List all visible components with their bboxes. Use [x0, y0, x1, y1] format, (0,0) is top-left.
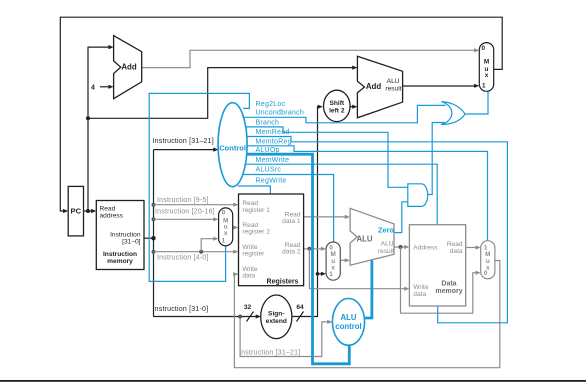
svg-text:M: M [484, 59, 489, 66]
wire: Uncondbranch signal to OR gate top input [242, 105, 446, 122]
svg-text:Sign-: Sign- [268, 311, 284, 318]
gate: OR gate [441, 102, 465, 125]
wire: MemWrite signal to data memory top [241, 164, 437, 224]
svg-text:ALUSrc: ALUSrc [256, 166, 282, 173]
wire: ALUSrc signal to ALUSrc mux select [240, 175, 334, 242]
svg-text:PC: PC [71, 207, 82, 216]
wire: Instruction [9-5] to Read register 1 [154, 204, 235, 206]
wire: instruction bus vertical [153, 150, 155, 317]
wire: Instruction [31-0] to Sign-extend [154, 316, 257, 318]
svg-text:[31–0]: [31–0] [122, 239, 141, 246]
wire: OR gate output to PCSrc mux select [465, 92, 488, 114]
svg-text:Read: Read [447, 241, 463, 248]
gate: AND gate [408, 184, 428, 207]
ellipse: Control [218, 103, 247, 187]
wire: Instruction [20-16] to Reg2Loc mux input 0 [154, 218, 215, 220]
adder: branch Add [357, 56, 402, 118]
svg-text:Instruction [31–21]: Instruction [31–21] [153, 138, 214, 145]
register PC [68, 186, 83, 236]
wire: MemtoReg signal to MemtoReg mux select [241, 146, 488, 240]
svg-text:Instruction [31–21]: Instruction [31–21] [239, 349, 300, 356]
svg-text:Instruction: Instruction [110, 231, 141, 238]
wire: Instruction [31-21] to Control [154, 149, 215, 151]
svg-text:Reg2Loc: Reg2Loc [256, 101, 286, 108]
wire: data memory Read data to MemtoReg mux input 1 [466, 247, 477, 249]
svg-text:64: 64 [296, 304, 304, 311]
svg-text:Uncondbranch: Uncondbranch [256, 110, 305, 117]
svg-text:data 1: data 1 [282, 218, 301, 225]
svg-text:memory: memory [107, 258, 133, 265]
svg-text:extend: extend [266, 318, 287, 325]
svg-text:ALU: ALU [381, 240, 394, 247]
rule: bottom border line [0, 380, 586, 382]
adder: PC+4 Add [114, 36, 142, 99]
svg-text:RegWrite: RegWrite [256, 177, 287, 184]
wire: Read data 2 to ALUSrc mux input 0 [304, 248, 322, 250]
ellipse: Shift left 2 [324, 90, 351, 121]
node: ALU result branch junction [399, 245, 403, 249]
wire: shift-left-2 output to branch adder [350, 106, 353, 108]
svg-text:Instruction [20-16]: Instruction [20-16] [155, 209, 215, 216]
svg-text:register 2: register 2 [242, 229, 270, 236]
svg-text:data: data [450, 248, 463, 255]
memory: Data memory [409, 225, 465, 306]
svg-text:Add: Add [121, 62, 137, 71]
svg-text:data: data [242, 273, 255, 280]
wire: PC value up to PC+4 adder input [88, 47, 109, 211]
svg-text:Instruction: Instruction [103, 251, 137, 258]
wire: PC output to instruction memory Read address [84, 210, 93, 212]
wire: instruction memory output stub [144, 237, 154, 239]
svg-text:Add: Add [366, 82, 382, 91]
svg-text:Read: Read [100, 205, 116, 212]
ellipse: Sign-extend [261, 295, 292, 339]
svg-text:Branch: Branch [256, 119, 280, 126]
wire: Zero flag to AND gate bottom input [394, 202, 408, 233]
wire: ALU control output to ALU (4-bit) [365, 260, 372, 318]
svg-text:MemtoReg: MemtoReg [256, 138, 292, 145]
svg-text:0: 0 [484, 270, 488, 277]
svg-text:Instruction [31-0]: Instruction [31-0] [153, 306, 209, 313]
svg-text:Instruction [4-0]: Instruction [4-0] [157, 254, 209, 261]
wire: Reg2Loc signal routed left and under to Reg2Loc mux select [149, 93, 249, 281]
svg-text:control: control [335, 322, 361, 331]
wire: Instruction [4-0] to Write register [154, 251, 235, 253]
svg-text:0: 0 [482, 45, 486, 52]
node: PC output junction [86, 209, 90, 213]
svg-text:ALU: ALU [340, 313, 356, 322]
node: PC branch junction [86, 116, 90, 120]
svg-text:ALUOp: ALUOp [256, 147, 280, 154]
wire: ALU result to MemtoReg mux input 0 [401, 247, 477, 313]
memory: Instruction memory [96, 201, 144, 270]
ellipse: ALU control [332, 299, 364, 346]
wire: RegWrite signal to Registers [238, 186, 270, 194]
svg-text:MemRead: MemRead [256, 129, 290, 136]
mux: ALUSrc mux [326, 242, 340, 280]
wire: PC+4 adder output to PCSrc mux input 0 [142, 50, 475, 67]
svg-text:0: 0 [222, 210, 226, 217]
wire: PC value to branch adder top input [88, 68, 353, 119]
node: sign-extend riser to ALUSrc mux junction [316, 272, 320, 276]
wire: Read data 2 to data memory Write data [309, 249, 405, 289]
wire: MemtoReg mux output back to Registers Write data [234, 261, 500, 368]
svg-text:Data: Data [441, 281, 456, 288]
svg-text:4: 4 [91, 84, 95, 91]
svg-text:ALU: ALU [387, 78, 400, 85]
mux: MemtoReg mux [481, 241, 495, 279]
node: instruction bus tap [20-16] [152, 217, 156, 221]
node: Instruction [4-0] branch junction [199, 250, 203, 254]
svg-text:Address: Address [413, 244, 438, 251]
svg-text:Shift: Shift [329, 100, 344, 107]
svg-text:data: data [413, 291, 426, 298]
wire: PCSrc mux output loop to PC input [60, 17, 502, 211]
wire: Instruction [4-0] up to Reg2Loc mux input 1 [201, 239, 214, 252]
svg-text:left 2: left 2 [329, 108, 345, 115]
mux: Reg2Loc mux [219, 208, 233, 246]
wire: AND gate output to OR gate bottom input [428, 123, 445, 195]
wire: ALUOp signal to ALU control (2-bit) [242, 154, 349, 364]
node: Read data 2 branch junction [307, 247, 311, 251]
svg-text:32: 32 [244, 304, 252, 311]
svg-text:memory: memory [435, 288, 462, 295]
svg-text:data 2: data 2 [282, 249, 301, 256]
wire: Branch signal to AND gate top input [241, 127, 408, 187]
wire: sign-extend output riser to shift-left-2 [292, 107, 319, 317]
svg-text:ALU: ALU [356, 235, 372, 244]
node: instruction bus output junction [151, 236, 155, 240]
node: sign-extend input junction [238, 315, 242, 319]
svg-text:x: x [224, 230, 228, 237]
wire: immediate into ALUSrc mux input 1 [318, 273, 322, 275]
svg-text:result: result [378, 248, 394, 255]
wire: branch adder result to PCSrc mux input 1 [403, 85, 475, 87]
svg-text:x: x [485, 72, 489, 79]
wire: Instruction [31-21] to ALU control [240, 317, 328, 357]
svg-text:address: address [100, 212, 124, 219]
wire: constant 4 into PC+4 adder [100, 86, 109, 88]
wire: MemRead signal to data memory bottom [241, 137, 507, 323]
svg-text:Write: Write [413, 284, 429, 291]
node: instruction bus tap [9-5] [152, 203, 156, 207]
wire: Read data 1 to ALU input 1 [304, 216, 346, 218]
mux: PCSrc mux (top right) [479, 43, 493, 92]
alu: main ALU [350, 208, 394, 265]
wire: ALUSrc mux output to ALU input 2 [340, 259, 345, 261]
node: instruction bus tap [4-0] [152, 250, 156, 254]
svg-text:Control: Control [219, 143, 246, 152]
svg-text:result: result [385, 86, 401, 93]
svg-text:MemWrite: MemWrite [256, 157, 290, 164]
svg-text:Instruction [9-5]: Instruction [9-5] [157, 197, 209, 204]
wire: Reg2Loc mux output to Read register 2 [233, 227, 234, 229]
svg-text:1: 1 [222, 237, 226, 244]
svg-text:Zero: Zero [378, 226, 395, 235]
svg-text:Registers: Registers [267, 279, 299, 286]
svg-text:register: register [242, 251, 265, 258]
svg-text:1: 1 [329, 271, 333, 278]
svg-text:register 1: register 1 [242, 207, 270, 214]
wire: ALU result to data memory Address [394, 246, 405, 248]
registers: register file [239, 194, 304, 286]
svg-text:1: 1 [482, 82, 486, 89]
